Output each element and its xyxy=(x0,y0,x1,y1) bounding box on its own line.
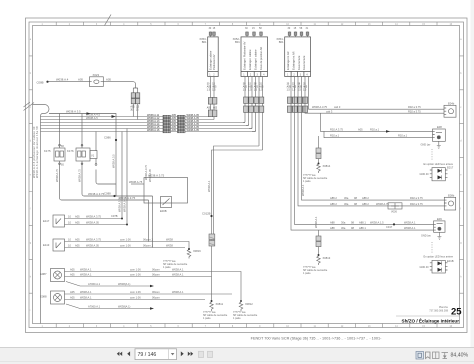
node C017 on E09 run xyxy=(393,223,395,225)
svg-text:W038.A.1: W038.A.1 xyxy=(172,268,184,272)
svg-text:06com.1: 06com.1 xyxy=(143,238,154,242)
wire drop to relay K175 xyxy=(59,114,61,144)
svg-text:W038.A.1: W038.A.1 xyxy=(80,296,92,300)
svg-text:W038.A.16: W038.A.16 xyxy=(147,129,160,132)
switch E113 xyxy=(53,239,65,251)
svg-text:B01: B01 xyxy=(235,40,240,44)
svg-text:C07B: C07B xyxy=(111,214,118,218)
strip X053 bottom stubs and blocks xyxy=(211,77,215,98)
svg-text:E087: E087 xyxy=(40,272,47,276)
first page button xyxy=(117,351,130,356)
wire relay K175 bottom to run y=200 xyxy=(60,166,149,200)
svg-text:Feux de position AR: Feux de position AR xyxy=(259,47,263,70)
svg-text:com 1.06: com 1.06 xyxy=(120,244,131,248)
svg-text:30a: 30a xyxy=(341,220,346,224)
svg-text:cab 3: cab 3 xyxy=(326,109,333,113)
svg-text:W038.A.1: W038.A.1 xyxy=(404,226,416,230)
next page button xyxy=(181,351,193,356)
strip X052 wires to C012B pair xyxy=(212,146,263,154)
svg-text:E09: E09 xyxy=(437,217,442,221)
wire drop to relay K176 xyxy=(81,114,83,144)
svg-text:W038.A.1.5: W038.A.1.5 xyxy=(370,220,384,224)
svg-text:W038.A.75: W038.A.75 xyxy=(376,202,389,206)
labels on E08 run xyxy=(330,127,408,137)
svg-text:A05: A05 xyxy=(259,86,264,89)
wire X023 to corner down xyxy=(103,82,137,93)
svg-text:E088: E088 xyxy=(40,295,47,299)
wires E117 to feeders xyxy=(65,219,128,225)
wire relay V1 bottom to y=184 across to x=116 xyxy=(96,170,116,185)
svg-text:X0811: X0811 xyxy=(216,302,224,306)
toolbar background xyxy=(0,348,474,364)
svg-text:06com: 06com xyxy=(152,296,160,300)
svg-text:K176: K176 xyxy=(67,149,74,153)
svg-text:A05: A05 xyxy=(78,78,83,82)
connector X023 xyxy=(90,77,104,87)
bundle wire labels left xyxy=(86,113,101,120)
page number input box xyxy=(135,349,177,360)
strip X052 internal rotated text xyxy=(242,41,262,70)
prev page button xyxy=(127,351,130,356)
vertical feeder x=127 to switch row E117 xyxy=(126,129,128,225)
svg-text:1 paire: 1 paire xyxy=(203,317,211,320)
svg-text:C08B: C08B xyxy=(37,81,44,85)
svg-text:R02.a.1: R02.a.1 xyxy=(398,134,408,138)
strip X054 internal rotated text xyxy=(286,51,306,70)
wire bundle 6 rows xyxy=(41,117,256,132)
svg-text:W038.A.3.75: W038.A.3.75 xyxy=(86,238,102,242)
svg-text:W038.A.3.75: W038.A.3.75 xyxy=(148,174,165,178)
svg-text:GND (av: GND (av xyxy=(421,235,431,238)
vertical feeder x=148.5 down to switch row E113 xyxy=(148,200,150,242)
svg-text:A88.1: A88.1 xyxy=(359,220,366,224)
strip X054 pin numbers xyxy=(287,74,308,77)
labels on E08b run xyxy=(330,196,423,206)
vertical feeder x=152.5 down to switch row E113 xyxy=(152,196,154,248)
svg-text:W038.A.1: W038.A.1 xyxy=(80,273,92,277)
svg-text:com 1.06: com 1.06 xyxy=(130,268,141,272)
relay K175 xyxy=(54,144,65,167)
dome light E09 xyxy=(434,221,445,232)
svg-text:1 paire: 1 paire xyxy=(163,266,171,269)
svg-text:B01: B01 xyxy=(279,40,284,44)
wire to dome light E08 pin1 xyxy=(321,113,433,131)
fit width icon xyxy=(442,353,449,359)
svg-text:com 1.06: com 1.06 xyxy=(130,290,141,294)
svg-text:E01B: E01B xyxy=(447,259,454,263)
svg-text:06com: 06com xyxy=(152,273,160,277)
strip X052 top pins xyxy=(246,32,263,37)
grid tick marks left band xyxy=(29,56,33,293)
strip X053 pin numbers row xyxy=(209,74,215,77)
svg-text:E08: E08 xyxy=(437,125,442,129)
twisted pair termination X0816 xyxy=(187,248,191,259)
labels on E09 run xyxy=(330,220,416,230)
svg-text:E117: E117 xyxy=(43,219,50,223)
svg-text:W038: W038 xyxy=(166,238,173,242)
lamp E087 xyxy=(51,269,65,282)
strip X054 bottom stubs and block rows xyxy=(291,77,309,98)
svg-text:GND 40: GND 40 xyxy=(420,173,430,176)
wires E088 xyxy=(65,294,233,309)
svg-text:Eclairage cabine: Eclairage cabine xyxy=(208,50,212,70)
svg-text:30a: 30a xyxy=(344,196,349,200)
svg-text:Feux lecture: Feux lecture xyxy=(302,55,306,70)
svg-text:W038: W038 xyxy=(166,244,173,248)
svg-text:737.080.006.008: 737.080.006.008 xyxy=(429,309,448,312)
title block small text xyxy=(429,306,448,312)
svg-text:W038.A.3.75: W038.A.3.75 xyxy=(86,215,102,219)
svg-text:Eclairage i cabine: Eclairage i cabine xyxy=(248,49,252,70)
scrollbar track right edge xyxy=(471,0,474,347)
switch unit E009 box xyxy=(131,178,188,208)
strip X053 top pins xyxy=(209,32,215,37)
svg-text:A7060.A.1: A7060.A.1 xyxy=(88,282,101,286)
facing pages icon xyxy=(433,352,440,359)
svg-text:A05: A05 xyxy=(70,268,75,272)
svg-text:1 paire: 1 paire xyxy=(303,272,311,275)
svg-text:06com: 06com xyxy=(152,290,160,294)
svg-text:C012B: C012B xyxy=(202,212,211,216)
border frame inner xyxy=(33,26,460,324)
bundle inline blocks and labels xyxy=(163,115,185,133)
svg-text:V036: V036 xyxy=(391,211,397,214)
svg-text:25: 25 xyxy=(451,307,462,318)
strip X053 internal rotated text xyxy=(208,50,216,70)
svg-text:A05: A05 xyxy=(75,215,80,219)
svg-text:R02.a.1: R02.a.1 xyxy=(370,127,380,131)
svg-text:cab 3: cab 3 xyxy=(334,105,341,109)
svg-text:A05: A05 xyxy=(207,107,212,110)
cut mark top border xyxy=(105,15,112,26)
svg-text:W038(A.1): W038(A.1) xyxy=(118,282,131,286)
svg-text:GND 40: GND 40 xyxy=(420,266,430,269)
wire from enclosure hook along y=113.5 xyxy=(49,114,116,197)
svg-text:W038.A.3.75: W038.A.3.75 xyxy=(88,192,105,196)
svg-text:V1: V1 xyxy=(91,154,95,158)
svg-text:A05: A05 xyxy=(75,244,80,248)
wires E087 xyxy=(65,272,242,303)
svg-text:W038.A.05: W038.A.05 xyxy=(86,244,99,248)
svg-text:A05: A05 xyxy=(298,86,303,89)
svg-text:Eclairage i Plafonnier AV: Eclairage i Plafonnier AV xyxy=(242,41,246,70)
svg-text:30a: 30a xyxy=(344,202,349,206)
wire to dome light E08 pin2 xyxy=(324,131,433,137)
svg-text:W038.A.3.75: W038.A.3.75 xyxy=(118,196,122,212)
wire strip X054 pin4 to lamp E04b pin1 xyxy=(309,97,445,109)
svg-text:W038.A.05: W038.A.05 xyxy=(86,221,99,225)
arrow on hook wire xyxy=(87,112,91,115)
svg-text:C088: C088 xyxy=(104,192,111,196)
svg-text:A05: A05 xyxy=(287,86,292,89)
vertical feeder x=122 to switch row E117 xyxy=(121,132,123,219)
svg-text:W038.A.1: W038.A.1 xyxy=(80,268,92,272)
inline diode V036 on E08b run xyxy=(388,203,402,209)
title block lines xyxy=(396,315,460,317)
ground stub below E09 xyxy=(437,232,441,239)
svg-text:A88.2: A88.2 xyxy=(362,202,369,206)
connector strip X054/B01 body xyxy=(285,37,311,77)
svg-text:A88.2: A88.2 xyxy=(330,202,337,206)
svg-text:A05: A05 xyxy=(303,86,308,89)
svg-text:E04b: E04b xyxy=(448,101,455,105)
connector strip X052/B01 body xyxy=(241,37,268,77)
svg-text:A7060.A.1: A7060.A.1 xyxy=(88,305,101,309)
LED symbols inside E019 xyxy=(438,261,442,271)
svg-text:En option LED feux arriere: En option LED feux arriere xyxy=(424,163,454,166)
connector strip X053/B01 body xyxy=(208,37,219,77)
svg-text:A05: A05 xyxy=(70,273,75,277)
svg-text:W038.A.5: W038.A.5 xyxy=(86,116,98,120)
node C088 on y=196 xyxy=(113,195,115,197)
svg-text:FENDT 700 Vario SCR (Stage 3b): FENDT 700 Vario SCR (Stage 3b) 735 .. - … xyxy=(251,336,382,340)
svg-text:K175: K175 xyxy=(44,149,51,153)
svg-text:A05: A05 xyxy=(75,221,80,225)
svg-text:GND (av: GND (av xyxy=(421,144,431,147)
prev view icon (disabled) xyxy=(199,351,213,357)
termination X0814 drop xyxy=(318,136,320,148)
svg-text:79 / 146: 79 / 146 xyxy=(138,352,157,358)
rotated labels for feeders xyxy=(144,164,152,182)
svg-text:A05: A05 xyxy=(130,105,135,108)
svg-text:84,40%: 84,40% xyxy=(451,353,469,359)
strip X052 pin numbers xyxy=(243,74,265,77)
svg-text:W038.A.1: W038.A.1 xyxy=(404,220,416,224)
svg-text:Eclairage int AR: Eclairage int AR xyxy=(286,51,290,70)
svg-text:R02 a 3.75: R02 a 3.75 xyxy=(410,202,423,206)
svg-text:A05: A05 xyxy=(358,127,363,131)
svg-text:com 1.06: com 1.06 xyxy=(130,296,141,300)
relay K176 with diode block V1 xyxy=(76,132,97,167)
svg-text:X023: X023 xyxy=(93,73,100,77)
arrow on E08 run xyxy=(386,130,390,133)
svg-text:X0812: X0812 xyxy=(245,302,253,306)
svg-text:X0816: X0816 xyxy=(193,249,201,253)
ceiling lamp connector E08b xyxy=(444,197,455,210)
svg-text:W038.A.75: W038.A.75 xyxy=(129,180,143,184)
rotated labels on relay drop wires xyxy=(55,169,82,182)
wire strip X054 pin2b to E08b pin1 xyxy=(302,97,445,200)
svg-text:30a: 30a xyxy=(341,226,346,230)
dome light E08 xyxy=(433,129,446,141)
svg-text:R02.A.3.75: R02.A.3.75 xyxy=(330,127,344,131)
svg-text:A88.2: A88.2 xyxy=(330,196,337,200)
cut mark left border xyxy=(24,102,35,111)
wire strip X054 pin1 to E09 pin2 xyxy=(291,97,434,230)
svg-text:W038.A.05: W038.A.05 xyxy=(187,129,200,132)
svg-text:W038.A.1: W038.A.1 xyxy=(314,216,318,228)
svg-text:C017: C017 xyxy=(386,225,393,229)
svg-text:A05: A05 xyxy=(106,78,111,82)
node C012B xyxy=(210,215,212,217)
svg-text:W038.A.75: W038.A.75 xyxy=(55,169,59,182)
grid band letters and numbers xyxy=(30,24,463,328)
svg-text:W038.A.1: W038.A.1 xyxy=(172,290,184,294)
svg-text:W038.A.3.5: W038.A.3.5 xyxy=(112,154,116,168)
grid tick marks top band xyxy=(29,22,464,328)
svg-text:A05: A05 xyxy=(70,290,75,294)
switch E117 xyxy=(53,215,65,227)
labels on E04b run xyxy=(312,105,421,113)
svg-text:R02 a 3.75: R02 a 3.75 xyxy=(410,196,423,200)
last page button xyxy=(188,352,191,356)
bookmark icon xyxy=(426,352,431,359)
strip X052 bottom stubs and block rows xyxy=(245,77,263,151)
svg-text:E08b: E08b xyxy=(448,194,455,198)
svg-text:Eclairage int AR: Eclairage int AR xyxy=(291,51,295,70)
connector block pair on X023 drop xyxy=(131,93,140,104)
svg-text:A05: A05 xyxy=(243,86,248,89)
svg-text:E00B: E00B xyxy=(160,209,167,213)
svg-text:W038(A.1): W038(A.1) xyxy=(118,305,131,309)
svg-text:A05: A05 xyxy=(248,86,253,89)
svg-text:En option LED feux arriere: En option LED feux arriere xyxy=(424,256,454,259)
svg-text:A05: A05 xyxy=(172,129,177,132)
twisted pair termination X0812 xyxy=(239,302,243,311)
svg-text:W038.A.3.75: W038.A.3.75 xyxy=(312,105,328,109)
svg-text:E113: E113 xyxy=(43,243,50,247)
svg-text:C086: C086 xyxy=(104,136,111,140)
border frame middle xyxy=(29,22,464,328)
strip X054 top pins xyxy=(288,32,309,37)
svg-text:A05: A05 xyxy=(212,86,217,89)
svg-text:com 1.06: com 1.06 xyxy=(120,238,131,242)
svg-text:1 paire: 1 paire xyxy=(233,317,241,320)
svg-text:A05: A05 xyxy=(75,238,80,242)
svg-text:Eclairage i cabine: Eclairage i cabine xyxy=(253,49,257,70)
svg-text:X0814: X0814 xyxy=(323,164,331,168)
single page view icon (active) xyxy=(416,352,424,360)
wire strip X054 pin3b to lamp E04b pin2 xyxy=(305,97,444,113)
svg-text:A88: A88 xyxy=(330,226,335,230)
lamp E088 xyxy=(51,291,65,304)
svg-text:A05: A05 xyxy=(207,86,212,89)
svg-text:A05: A05 xyxy=(254,86,259,89)
svg-text:R02 a 3.75: R02 a 3.75 xyxy=(408,109,421,113)
svg-text:Feux lecture: Feux lecture xyxy=(297,55,301,70)
svg-text:R02.a.1: R02.a.1 xyxy=(330,134,340,138)
harness label strip left margin (rotated text) xyxy=(32,126,39,178)
wire strip X054 pin2 to E08b pin2 xyxy=(298,97,444,206)
svg-text:W038.A.1: W038.A.1 xyxy=(172,273,184,277)
hatch blocks on pair xyxy=(209,234,215,246)
wire relay K176 bottom to run y=196 xyxy=(82,166,153,196)
svg-text:A05: A05 xyxy=(70,296,75,300)
svg-text:R02 a 3.75: R02 a 3.75 xyxy=(408,105,421,109)
wire strip X054 pin1b to E09 pin1 xyxy=(295,97,434,224)
svg-text:X0813: X0813 xyxy=(323,256,331,260)
svg-text:E017: E017 xyxy=(447,166,454,170)
svg-text:W038.A.05: W038.A.05 xyxy=(123,199,127,212)
node C086 xyxy=(115,139,117,141)
twisted pair termination X0811 xyxy=(210,302,214,311)
svg-text:A88.2: A88.2 xyxy=(362,196,369,200)
ceiling lamp connector E04b xyxy=(444,105,456,117)
svg-text:A88: A88 xyxy=(330,220,335,224)
svg-text:06com.1: 06com.1 xyxy=(143,244,154,248)
vertical wire pair to C012B xyxy=(212,150,214,302)
cab enclosure outline hook and left vertical xyxy=(33,105,50,324)
svg-text:06com: 06com xyxy=(152,268,160,272)
bundle arrow row1 xyxy=(112,115,116,118)
svg-text:W038.A.4: W038.A.4 xyxy=(56,78,69,82)
svg-text:com 1.06: com 1.06 xyxy=(130,273,141,277)
rotated labels for E117 feeders xyxy=(118,196,127,212)
ground stub below E08 xyxy=(437,141,441,148)
grid tick marks bottom band xyxy=(56,324,437,328)
wire W038.A.4 to X023 xyxy=(49,81,90,83)
node C08B start dot xyxy=(46,81,48,83)
svg-text:W038.A.1: W038.A.1 xyxy=(207,180,211,192)
wires E113 to X0816 xyxy=(65,242,190,248)
svg-text:A05: A05 xyxy=(292,86,297,89)
svg-text:W038.A.5 eclairage interieur 1: W038.A.5 eclairage interieur 15a 58 xyxy=(35,126,39,178)
svg-text:1 paire: 1 paire xyxy=(303,180,311,183)
svg-text:A88.1: A88.1 xyxy=(359,226,366,230)
svg-text:W038.A.1: W038.A.1 xyxy=(80,290,92,294)
svg-text:Sh/ZO / Éclairage intérieur: Sh/ZO / Éclairage intérieur xyxy=(402,317,460,324)
twisted pair termination X0813 xyxy=(318,230,320,236)
svg-text:Plafonnier AV: Plafonnier AV xyxy=(212,54,216,70)
LED symbols inside E017 xyxy=(438,169,442,180)
svg-text:B01: B01 xyxy=(202,40,207,44)
grid tick marks right band xyxy=(460,56,464,293)
svg-text:W038.A.3.5: W038.A.3.5 xyxy=(66,110,81,114)
strip X052 cascade wires to bundle rows 3-6 xyxy=(243,122,256,132)
svg-text:W038.A.75: W038.A.75 xyxy=(78,169,82,182)
